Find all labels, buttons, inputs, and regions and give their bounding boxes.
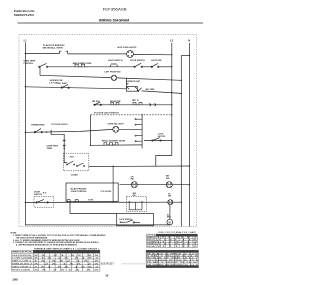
junction row5 at L2 — [171, 104, 172, 105]
connector marks row5 — [150, 103, 156, 106]
wire row3 drop to RF box — [126, 78, 128, 87]
svg-text:N.O.: N.O. — [43, 192, 48, 194]
wire row3 to neutral — [117, 78, 182, 80]
label lock lamp — [168, 193, 172, 197]
label oven vent tube — [47, 146, 59, 150]
svg-text:BAKE ELEMENT 2585W: BAKE ELEMENT 2585W — [73, 62, 92, 65]
junction row3 at neutral — [181, 80, 182, 81]
wire OTC drop — [39, 67, 41, 76]
label surface unit RR — [145, 89, 155, 91]
junction latch at selector — [141, 114, 142, 115]
svg-text:CLOCK: CLOCK — [101, 191, 113, 193]
wire L1 bus — [24, 43, 26, 226]
wire row2 — [48, 66, 111, 68]
control box EOC — [66, 183, 118, 202]
svg-text:DOOR SWITCH: DOOR SWITCH — [130, 60, 145, 62]
wire row4 — [25, 87, 126, 89]
heater bumps row5 b — [133, 103, 142, 105]
lamp broil indicator — [166, 182, 172, 188]
svg-text:HIGH 2500W: HIGH 2500W — [12, 269, 30, 271]
svg-text:SEE INSTALL. INSTR.: SEE INSTALL. INSTR. — [43, 47, 64, 50]
switch door — [36, 199, 48, 203]
wire motor bottom stub — [169, 223, 171, 226]
label door switch — [34, 191, 47, 195]
MDL box dashed — [126, 197, 146, 212]
switch inside TOD — [66, 161, 84, 167]
svg-text:5995271254: 5995271254 — [14, 13, 34, 17]
wire door latch dashed — [91, 114, 172, 116]
junction door row at L1 — [25, 202, 26, 203]
wire EOC to lock box — [70, 202, 117, 214]
wire TOD output — [89, 165, 190, 168]
left table data marks — [34, 255, 101, 271]
svg-text:MEDIUM 2: MEDIUM 2 — [12, 264, 32, 266]
junction row1 at L2 — [171, 54, 172, 55]
svg-text:LATCH SW: LATCH SW — [151, 59, 162, 62]
lock switch solid box — [117, 213, 154, 225]
wire row2 to L2 — [159, 66, 172, 68]
label anti-tip note — [43, 44, 66, 49]
wire row8 — [91, 144, 143, 146]
fuse break row1 — [60, 51, 68, 53]
svg-text:IND: IND — [166, 178, 170, 180]
wire lock stub — [144, 140, 172, 142]
label lock motor — [158, 133, 166, 137]
junction N elbow — [189, 55, 190, 56]
label door lock motor DLM — [167, 215, 172, 219]
diagram border frame — [19, 35, 197, 227]
junction row1 at L1 — [25, 53, 26, 54]
right bottom table rows — [147, 253, 200, 267]
wire motor stub up — [169, 205, 171, 220]
wire pin stub TOD to door row — [112, 166, 114, 202]
wire N bus — [188, 43, 190, 227]
lamp oven indicator — [113, 126, 119, 132]
svg-text:LF SW: LF SW — [58, 83, 67, 85]
right bottom table header band — [146, 250, 198, 252]
svg-text:SWITCH POS.: SWITCH POS. — [12, 252, 33, 254]
wire row1 to L2 — [133, 53, 171, 55]
lamp lock indicator — [168, 200, 173, 205]
svg-text:X 1 2 1 X 2 X: X 1 2 1 X 2 X — [157, 246, 199, 248]
wire row2 mid2 — [142, 66, 152, 68]
label oven temp control — [23, 61, 35, 65]
left table — [12, 250, 100, 271]
switch row4 right — [138, 88, 142, 92]
svg-text:MED LOW 1: MED LOW 1 — [12, 261, 31, 263]
svg-text:THERMOSTAT: THERMOSTAT — [31, 123, 45, 126]
svg-text:40 W OVEN LIGHTS: 40 W OVEN LIGHTS — [118, 46, 137, 49]
svg-text:LEFT FRONT IND: LEFT FRONT IND — [105, 71, 122, 73]
wire latch drop — [90, 115, 92, 146]
relay box TOD dashed — [63, 153, 88, 171]
right top table — [147, 234, 198, 247]
wire row1 oven light circuit — [25, 53, 59, 55]
svg-text:919243257: 919243257 — [101, 262, 115, 266]
connector bumps under EOC — [67, 200, 78, 203]
svg-text:BROIL ELEMENT 3000W: BROIL ELEMENT 3000W — [102, 140, 125, 142]
svg-text:X X X 1 X 2 X X: X X X 1 X 2 X X — [34, 255, 101, 257]
junction row4 at neutral — [181, 93, 182, 94]
junction lock at L2 — [171, 140, 172, 141]
svg-text:DELAY: DELAY — [147, 245, 157, 248]
lamp left front indicator — [111, 75, 116, 80]
notes block — [10, 232, 106, 246]
wire lamp feed row — [120, 184, 190, 186]
switch oven temp control — [39, 63, 48, 67]
svg-text:OVEN CIRCUIT ANALYSIS CHART: OVEN CIRCUIT ANALYSIS CHART — [158, 231, 198, 234]
junction door row pin — [112, 201, 113, 202]
switch in lock box — [120, 220, 140, 223]
left table row labels — [12, 255, 32, 271]
junction MDL left — [129, 201, 130, 202]
switch row5 — [94, 102, 102, 106]
wire door switch row — [25, 201, 181, 203]
switch box door dashed — [34, 197, 54, 208]
junction latch drop row8 — [90, 145, 91, 146]
wire inner neutral bus — [180, 56, 182, 227]
lamp oven light — [127, 51, 134, 58]
svg-text:CLEAN: CLEAN — [71, 174, 78, 177]
junction vent lower — [63, 148, 64, 149]
wire row6 thermostat — [25, 129, 112, 132]
publication number block — [14, 9, 36, 17]
wire row1 continues — [68, 53, 127, 55]
svg-text:SU RR: SU RR — [145, 89, 155, 91]
switch light pushbutton — [111, 64, 118, 67]
svg-text:LIGHT SWITCH: LIGHT SWITCH — [108, 60, 123, 62]
svg-text:MOTOR: MOTOR — [158, 136, 166, 138]
header rule — [18, 22, 204, 24]
svg-text:TIMED: TIMED — [147, 244, 157, 246]
right bottom table footer band — [146, 266, 198, 268]
junction lamp row at N — [189, 184, 190, 185]
svg-text:MED HIGH 1: MED HIGH 1 — [12, 266, 31, 268]
svg-text:OVEN CONTROL: OVEN CONTROL — [71, 191, 88, 193]
svg-text:FEF356ASB: FEF356ASB — [103, 7, 127, 11]
switch lock — [152, 138, 162, 142]
label surface unit RF — [126, 80, 141, 85]
right bottom table — [146, 250, 198, 267]
label BR indicator — [166, 176, 170, 180]
svg-text:SWITCH: SWITCH — [34, 194, 42, 196]
label on indicator — [131, 177, 135, 181]
left table header band — [33, 250, 100, 253]
connector marks vent path — [63, 140, 66, 147]
lamp on indicator — [131, 182, 137, 188]
svg-text:WIRING DIAGRAM: WIRING DIAGRAM — [99, 18, 129, 22]
wire L2 bus upper — [171, 43, 173, 141]
junction latch at L2 — [171, 114, 172, 115]
svg-text:TO DOOR LATCH SWITCH: TO DOOR LATCH SWITCH — [94, 112, 119, 115]
MDL internals — [129, 202, 142, 210]
label surface unit LF — [50, 79, 63, 84]
motor M circle — [167, 219, 173, 225]
switch row4 — [61, 85, 69, 89]
svg-text:TUBE: TUBE — [47, 148, 53, 150]
switch thermostat — [34, 129, 42, 133]
svg-text:16: 16 — [105, 274, 109, 278]
wire N elbow to inner neutral — [181, 55, 189, 57]
junction row6 mid tick — [50, 130, 52, 134]
svg-text:M: M — [169, 222, 171, 224]
svg-text:OVEN IND LIGHT: OVEN IND LIGHT — [108, 124, 125, 126]
svg-text:CONTROL: CONTROL — [23, 63, 34, 65]
junction row4 at L2 — [171, 92, 172, 93]
leader dots — [122, 263, 147, 265]
svg-text:OFF POSITION: OFF POSITION — [12, 255, 32, 257]
label MDL — [133, 193, 138, 197]
wire L2 detour — [156, 141, 172, 167]
label electronic oven control — [71, 188, 113, 192]
svg-text:LOW 1250W: LOW 1250W — [12, 258, 32, 260]
selector contacts — [135, 119, 142, 142]
wire row7 to selector — [119, 128, 142, 130]
svg-text:1/98: 1/98 — [12, 277, 18, 281]
selector bar — [141, 115, 143, 149]
svg-text:X 1 X 2 X X 1 X 2: X 1 X 2 X X 1 X 2 — [34, 258, 99, 260]
right top table rows — [147, 235, 199, 248]
svg-text:TOD: TOD — [70, 157, 75, 159]
wire row2 mid — [117, 66, 134, 68]
junction TOD wire branch — [112, 166, 113, 167]
svg-text:X X 2 X 1 X X X: X X 2 X 1 X X X — [34, 269, 101, 271]
switch latch — [151, 63, 159, 67]
switch block surface unit RF — [127, 87, 138, 92]
svg-text:2 X 1 X X 1 X X 2: 2 X 1 X X 1 X X 2 — [34, 266, 99, 268]
junction lock box — [120, 222, 121, 223]
svg-text:P4 P6: P4 P6 — [88, 199, 93, 202]
svg-text:GN GREEN BR BROWN 15 2.4 P: GN GREEN BR BROWN 15 2.4 P — [147, 264, 200, 266]
heater bumps row8 — [104, 143, 118, 145]
junction TOD output at N — [189, 165, 190, 166]
svg-text:X 2 X 1 X X 2 X: X 2 X 1 X X 2 X — [34, 264, 101, 266]
wire row5 — [94, 104, 172, 106]
heater bumps on row2 — [75, 64, 88, 67]
junction MDL right — [141, 201, 142, 202]
wire vent stub — [51, 132, 67, 163]
svg-text:4. APPROXIMATE RESISTANCE OF: 4. APPROXIMATE RESISTANCE OF SPECIFIED E… — [16, 244, 78, 247]
switch oven door — [134, 63, 143, 67]
svg-text:1 X X X 2 1 X X: 1 X X X 2 1 X X — [34, 261, 101, 263]
wire bottom run — [25, 224, 169, 226]
svg-text:TO DOOR LATCH: TO DOOR LATCH — [51, 123, 68, 126]
svg-text:NOTES:: NOTES: — [10, 232, 17, 234]
junction row6 at L1 — [25, 132, 26, 133]
junction row4 at L1 — [25, 86, 26, 87]
junction door row at neutral — [181, 202, 182, 203]
svg-text:2 2 1 X 2 X 1: 2 2 1 X 2 X 1 — [157, 244, 197, 246]
wire row3 — [40, 75, 111, 77]
wire row4 to neutral — [142, 91, 182, 94]
heater bumps row5 a — [111, 103, 119, 105]
svg-text:MTR: MTR — [167, 217, 172, 219]
svg-text:N: N — [188, 39, 190, 43]
junction row2 at L2 — [171, 66, 172, 67]
right top table header band — [156, 234, 197, 236]
